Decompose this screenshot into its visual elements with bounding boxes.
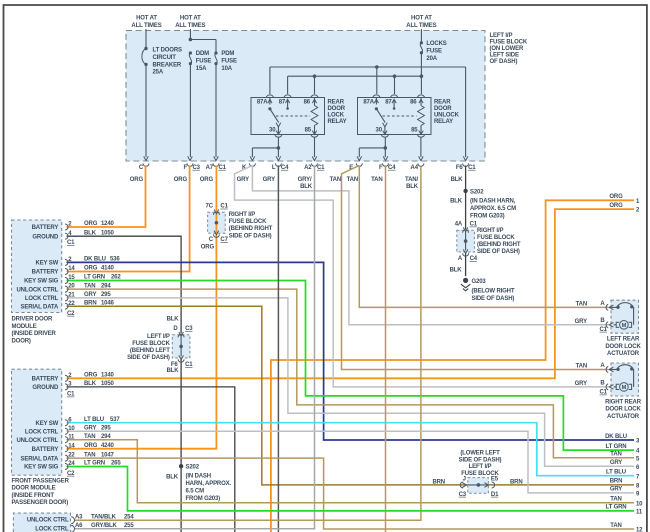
- svg-text:86: 86: [304, 99, 311, 105]
- svg-text:C4: C4: [281, 165, 289, 171]
- svg-text:87: 87: [385, 99, 392, 105]
- svg-text:BLK: BLK: [167, 316, 180, 322]
- svg-text:BRN: BRN: [510, 479, 523, 485]
- RIGHT REAR DOOR LOCK ACTUATOR (dashed box): [611, 363, 639, 396]
- svg-text:24: 24: [68, 461, 75, 467]
- svg-text:ORG: ORG: [84, 221, 98, 227]
- svg-text:BLK: BLK: [167, 368, 180, 374]
- relay switch armature: [376, 109, 385, 123]
- wire BLK 1050 passenger ground off-page: [67, 387, 235, 532]
- svg-text:21: 21: [68, 293, 75, 299]
- svg-text:C7: C7: [220, 237, 228, 243]
- junction lock 30 splice to pins K and L: [277, 146, 281, 150]
- svg-text:LOCK CTRL: LOCK CTRL: [35, 527, 69, 532]
- svg-text:ORG: ORG: [201, 244, 215, 250]
- svg-text:ORG: ORG: [609, 203, 623, 209]
- svg-text:255: 255: [124, 523, 134, 529]
- svg-text:BLK: BLK: [166, 475, 179, 481]
- svg-text:HOT AT: HOT AT: [180, 16, 201, 22]
- svg-text:1047: 1047: [101, 452, 115, 458]
- driver module pin 14 ORG 4140: [65, 269, 68, 275]
- svg-text:DK BLU: DK BLU: [605, 434, 627, 440]
- svg-text:GRY/BLK: GRY/BLK: [91, 523, 118, 529]
- svg-text:87: 87: [279, 99, 286, 105]
- svg-text:GRY: GRY: [84, 292, 96, 298]
- svg-text:HARN, APPROX.: HARN, APPROX.: [186, 481, 232, 487]
- wire LT GRN 262 driver key sw sig to terminal 4: [67, 281, 635, 451]
- svg-text:RIGHT REAR: RIGHT REAR: [605, 400, 642, 406]
- svg-text:LT DOORS: LT DOORS: [153, 48, 183, 54]
- svg-text:22: 22: [68, 301, 75, 307]
- svg-text:SIDE OF DASH): SIDE OF DASH): [229, 233, 272, 239]
- svg-text:TAN/: TAN/: [405, 177, 418, 183]
- svg-text:APPROX. 6.5 CM: APPROX. 6.5 CM: [470, 206, 516, 212]
- svg-text:LEFT I/P: LEFT I/P: [469, 464, 492, 470]
- svg-text:TAN: TAN: [610, 523, 621, 529]
- svg-text:(IN DASH HARN,: (IN DASH HARN,: [470, 199, 516, 205]
- passenger module pin 22 TAN 1047: [65, 455, 68, 461]
- wire TAN/BLK pin A4 to unlock ctrl A3: [75, 166, 421, 521]
- wire PDM fuse to pin A7/C1: [215, 64, 217, 157]
- svg-text:RIGHT I/P: RIGHT I/P: [477, 228, 503, 234]
- svg-text:M: M: [622, 385, 627, 391]
- svg-text:ALL TIMES: ALL TIMES: [175, 23, 205, 29]
- svg-text:FROM G203): FROM G203): [470, 214, 505, 220]
- svg-text:LEFT I/P: LEFT I/P: [147, 334, 170, 340]
- circuit breaker LT DOORS 25A: [144, 47, 147, 50]
- relay coil-armature dashed link: [382, 115, 416, 117]
- svg-text:DOOR MODULE: DOOR MODULE: [12, 486, 56, 492]
- wire ORG off-page to terminal 1: [271, 200, 634, 532]
- wire GRY 295 passenger lock ctrl to terminal 9: [67, 431, 635, 493]
- LEFT REAR DOOR LOCK ACTUATOR (dashed box): [611, 300, 639, 333]
- svg-text:BRN: BRN: [84, 300, 97, 306]
- svg-text:GRY: GRY: [237, 177, 249, 183]
- svg-text:ORG: ORG: [200, 177, 214, 183]
- driver module pin 2 DK BLU 536: [65, 259, 68, 265]
- svg-text:7C: 7C: [206, 204, 214, 210]
- svg-text:C4: C4: [388, 165, 396, 171]
- svg-text:10A: 10A: [221, 66, 232, 72]
- svg-text:C1: C1: [67, 392, 75, 398]
- wire TAN 1047 passenger serial data to terminal 12: [67, 458, 635, 529]
- svg-text:ALL TIMES: ALL TIMES: [131, 23, 161, 29]
- svg-text:537: 537: [110, 417, 120, 423]
- svg-text:22: 22: [68, 453, 75, 459]
- svg-text:ORG: ORG: [130, 177, 144, 183]
- wire breaker output to pin C: [145, 64, 147, 157]
- svg-text:GROUND: GROUND: [32, 385, 59, 391]
- svg-text:294: 294: [101, 283, 111, 289]
- front passenger door module (dashed box): [12, 369, 62, 475]
- svg-text:LEFT I/P: LEFT I/P: [490, 33, 513, 39]
- svg-text:TAN: TAN: [330, 177, 341, 183]
- svg-text:(BEHIND LEFT: (BEHIND LEFT: [130, 348, 170, 354]
- svg-text:C3: C3: [459, 492, 467, 498]
- svg-text:4A: 4A: [455, 222, 463, 228]
- svg-text:25A: 25A: [153, 70, 164, 76]
- svg-text:A4: A4: [411, 165, 419, 171]
- svg-text:SERIAL DATA: SERIAL DATA: [21, 456, 60, 462]
- connector pin F/C4: [383, 156, 388, 160]
- svg-text:GRY/: GRY/: [298, 177, 312, 183]
- svg-text:F6: F6: [171, 362, 179, 368]
- wire lock relay 85 to pin A2: [314, 137, 316, 157]
- actuator motor: [620, 321, 629, 330]
- svg-text:11: 11: [636, 510, 643, 516]
- svg-text:(BEHIND RIGHT: (BEHIND RIGHT: [477, 242, 521, 248]
- svg-text:(INSIDE DRIVER: (INSIDE DRIVER: [12, 331, 57, 337]
- actuator motor: [620, 383, 629, 392]
- wire GRY pin L off-page (dark): [277, 166, 279, 532]
- wire ORG PDM fuse down to C7 connector and passenger battery ORG 4240: [215, 166, 217, 212]
- svg-text:DOOR: DOOR: [434, 106, 452, 112]
- svg-text:536: 536: [110, 257, 120, 263]
- wire TAN pin E straight to left rear actuator A: [359, 166, 608, 308]
- svg-text:FROM G203): FROM G203): [186, 496, 221, 502]
- svg-text:GRY: GRY: [610, 460, 622, 466]
- svg-text:FRONT PASSENGER: FRONT PASSENGER: [12, 479, 70, 485]
- wire TAN pin E diagonal to right rear actuator A: [342, 166, 609, 370]
- svg-text:295: 295: [101, 426, 111, 432]
- fuse PDM 10A: [214, 51, 217, 54]
- svg-text:MODULE: MODULE: [12, 324, 37, 330]
- svg-text:85: 85: [305, 128, 312, 134]
- svg-text:A7: A7: [206, 165, 214, 171]
- svg-text:L: L: [272, 165, 276, 171]
- wire BLK 4A connector to ground G203: [465, 253, 467, 276]
- wire rail2 relay coils and 87 contacts: [288, 75, 422, 77]
- svg-text:OF DASH): OF DASH): [490, 59, 518, 65]
- relay box LOCK REAR: [251, 98, 325, 135]
- svg-text:TAN: TAN: [610, 497, 621, 503]
- svg-text:SERIAL DATA: SERIAL DATA: [21, 304, 60, 310]
- svg-text:UNLOCK CTRL: UNLOCK CTRL: [27, 518, 69, 524]
- junction rail2 at 86 lock relay: [313, 74, 317, 78]
- svg-text:C3: C3: [193, 165, 201, 171]
- svg-text:C1: C1: [220, 204, 228, 210]
- svg-text:TAN: TAN: [371, 177, 382, 183]
- svg-text:F: F: [183, 165, 187, 171]
- svg-text:M: M: [622, 323, 627, 329]
- ground G203: [463, 278, 468, 283]
- svg-text:KEY SW SIG: KEY SW SIG: [24, 465, 59, 471]
- svg-text:REAR: REAR: [328, 100, 345, 106]
- wire GRY/BLK pin A2 to lock ctrl A6: [75, 166, 315, 529]
- svg-text:BLK: BLK: [450, 198, 463, 204]
- svg-text:ORG: ORG: [609, 194, 623, 200]
- svg-text:SIDE OF DASH): SIDE OF DASH): [477, 249, 520, 255]
- svg-text:PDM: PDM: [221, 51, 234, 57]
- connector pin A4: [419, 156, 424, 160]
- passenger module pin 6 LT BLU 537: [65, 420, 68, 426]
- svg-text:ORG: ORG: [84, 266, 98, 272]
- svg-text:TAN: TAN: [576, 364, 587, 370]
- svg-text:HOT AT: HOT AT: [411, 16, 432, 22]
- wire TAN 294 passenger unlock ctrl to terminal 10: [67, 440, 635, 503]
- splice S202 (left): [179, 464, 183, 468]
- svg-text:(BELOW RIGHT: (BELOW RIGHT: [472, 288, 515, 294]
- wire LT BLU 537 passenger key sw to terminal 7: [67, 423, 635, 476]
- svg-text:ALL TIMES: ALL TIMES: [406, 23, 436, 29]
- junction rail1 at unlock 87A: [375, 65, 379, 69]
- svg-text:295: 295: [101, 292, 111, 298]
- svg-text:F: F: [379, 165, 383, 171]
- svg-text:FUSE BLOCK: FUSE BLOCK: [477, 235, 515, 241]
- svg-text:GRY: GRY: [575, 319, 587, 325]
- svg-text:RELAY: RELAY: [328, 119, 347, 125]
- rear door module (dashed box, cut off): [13, 513, 70, 532]
- svg-text:GRY: GRY: [610, 487, 622, 493]
- svg-text:GRY: GRY: [84, 426, 96, 432]
- svg-text:G203: G203: [472, 279, 487, 285]
- svg-text:FUSE BLOCK: FUSE BLOCK: [461, 471, 499, 477]
- svg-text:87A: 87A: [363, 99, 374, 105]
- rear module pin A3 TAN/BLK 254: [71, 517, 74, 524]
- svg-text:FUSE BLOCK: FUSE BLOCK: [490, 39, 528, 45]
- svg-text:DOOR: DOOR: [328, 106, 346, 112]
- svg-text:1050: 1050: [101, 381, 115, 387]
- svg-text:ACTUATOR: ACTUATOR: [607, 351, 640, 357]
- svg-text:1050: 1050: [101, 230, 115, 236]
- passenger module pin 14 ORG 4240: [65, 446, 68, 452]
- svg-text:TAN: TAN: [84, 283, 95, 289]
- wire DDM fuse to pin F/C3: [189, 64, 191, 157]
- svg-text:DRIVER DOOR: DRIVER DOOR: [12, 317, 54, 323]
- svg-text:10: 10: [636, 501, 643, 507]
- wire GRY pin K straight to left rear actuator B: [252, 166, 608, 325]
- svg-text:BLK: BLK: [450, 267, 463, 273]
- svg-text:D1: D1: [491, 492, 499, 498]
- wire feed stub to circuit breaker: [145, 29, 147, 49]
- svg-text:15A: 15A: [196, 66, 207, 72]
- wire TAN pin F/C4 off-page: [385, 166, 387, 532]
- svg-text:(ON LOWER: (ON LOWER: [490, 46, 524, 52]
- svg-text:14: 14: [68, 266, 75, 272]
- relay coil-armature dashed link: [276, 115, 310, 117]
- fuse LOCKS 20A: [420, 41, 423, 44]
- svg-text:ACTUATOR: ACTUATOR: [607, 414, 640, 420]
- svg-text:F6: F6: [456, 165, 464, 171]
- svg-text:294: 294: [101, 434, 111, 440]
- svg-text:LOCK CTRL: LOCK CTRL: [25, 430, 59, 436]
- svg-text:TAN: TAN: [576, 302, 587, 308]
- svg-text:ORG: ORG: [174, 177, 188, 183]
- svg-text:BATTERY: BATTERY: [32, 447, 59, 453]
- svg-text:(BEHIND RIGHT: (BEHIND RIGHT: [229, 226, 273, 232]
- wire BLK left I/P fuse block to S202 and off-page: [180, 359, 182, 532]
- svg-text:4240: 4240: [101, 443, 115, 449]
- svg-text:20A: 20A: [426, 56, 437, 62]
- svg-text:BREAKER: BREAKER: [153, 62, 182, 68]
- relay coil: [418, 106, 425, 126]
- svg-text:BATTERY: BATTERY: [32, 270, 59, 276]
- relay coil: [311, 106, 318, 126]
- rear module pin A6 GRY/BLK 255: [71, 525, 74, 532]
- svg-text:FUSE: FUSE: [426, 49, 442, 55]
- svg-text:ORG: ORG: [84, 443, 98, 449]
- svg-text:GRY: GRY: [575, 381, 587, 387]
- left I/P fuse block (dashed box): [126, 31, 485, 162]
- svg-text:C1: C1: [600, 390, 608, 396]
- svg-text:BATTERY: BATTERY: [32, 377, 59, 383]
- svg-text:DOOR LOCK: DOOR LOCK: [605, 344, 641, 350]
- svg-text:(INSIDE FRONT: (INSIDE FRONT: [12, 493, 55, 499]
- svg-text:LT GRN: LT GRN: [606, 505, 627, 511]
- junction DDM/PDM feed: [189, 38, 193, 42]
- svg-text:TAN/BLK: TAN/BLK: [91, 515, 117, 521]
- svg-text:KEY SW: KEY SW: [36, 421, 59, 427]
- svg-text:LOCK CTRL: LOCK CTRL: [25, 296, 59, 302]
- wire unlock relay 30 output: [384, 137, 386, 157]
- connector pin C: [144, 156, 149, 160]
- passenger module pin 2 ORG 1340: [65, 375, 68, 381]
- svg-text:86: 86: [410, 99, 417, 105]
- svg-text:S202: S202: [186, 465, 200, 471]
- wire BRN 1046 driver serial data to terminal 8 via E5 connector: [67, 306, 635, 485]
- svg-text:BLK: BLK: [451, 177, 464, 183]
- wire ORG 1340 passenger battery to terminal 2: [67, 209, 635, 378]
- svg-text:C1: C1: [67, 240, 75, 246]
- wire BLK 1050 driver ground to left I/P fuse block: [67, 236, 182, 333]
- svg-text:LT BLU: LT BLU: [606, 470, 626, 476]
- svg-text:FUSE: FUSE: [221, 59, 237, 65]
- svg-text:FUSE: FUSE: [196, 59, 212, 65]
- wire ORG 1240 breaker to driver module battery: [67, 166, 146, 228]
- wire lock relay 30 output: [277, 137, 279, 157]
- driver module pin 22 BRN 1046: [65, 303, 68, 309]
- wire LT GRN 265 passenger key sw sig to terminal 11: [67, 467, 635, 511]
- svg-text:GRY: GRY: [263, 177, 275, 183]
- svg-text:CIRCUIT: CIRCUIT: [153, 55, 177, 61]
- wire TAN 294 driver unlock ctrl to terminal 5: [67, 289, 635, 458]
- driver module pin 2 ORG 1240: [65, 224, 68, 230]
- actuator crank arc: [617, 303, 633, 308]
- svg-text:BATTERY: BATTERY: [32, 225, 59, 231]
- driver module pin 4 BLK 1050: [65, 233, 68, 239]
- svg-text:C2: C2: [67, 471, 75, 477]
- svg-text:6.5 CM: 6.5 CM: [186, 489, 205, 495]
- junction unlock 30 splice to pins E and F: [384, 146, 388, 150]
- svg-text:TAN: TAN: [84, 434, 95, 440]
- svg-text:TAN: TAN: [84, 452, 95, 458]
- svg-text:A2: A2: [304, 165, 312, 171]
- svg-text:265: 265: [111, 461, 121, 467]
- wire unlock relay 85 to pin A4: [420, 137, 422, 157]
- svg-text:BRN: BRN: [432, 479, 445, 485]
- connector pin E: [357, 156, 362, 160]
- svg-text:20: 20: [68, 284, 75, 290]
- svg-text:262: 262: [111, 275, 121, 281]
- svg-text:RELAY: RELAY: [434, 119, 453, 125]
- svg-text:TAN: TAN: [610, 452, 621, 458]
- svg-text:ORG: ORG: [84, 373, 98, 379]
- svg-text:LT BLU: LT BLU: [84, 417, 104, 423]
- svg-text:C4: C4: [470, 256, 478, 262]
- connector pin K: [250, 156, 255, 160]
- driver module pin 15 LT GRN 262: [65, 278, 68, 284]
- svg-text:UNLOCK CTRL: UNLOCK CTRL: [17, 287, 59, 293]
- wire ORG 4140 DDM fuse to driver module battery: [67, 166, 190, 272]
- svg-text:(LOWER LEFT: (LOWER LEFT: [460, 451, 500, 457]
- svg-text:LEFT SIDE: LEFT SIDE: [490, 52, 519, 58]
- svg-text:C3: C3: [185, 326, 193, 332]
- svg-text:FUSE BLOCK: FUSE BLOCK: [132, 341, 170, 347]
- svg-text:C1: C1: [470, 222, 478, 228]
- svg-text:TAN: TAN: [347, 177, 358, 183]
- svg-text:85: 85: [411, 128, 418, 134]
- svg-text:UNLOCK CTRL: UNLOCK CTRL: [17, 438, 59, 444]
- svg-text:SIDE OF DASH): SIDE OF DASH): [472, 296, 515, 302]
- svg-text:DOOR LOCK: DOOR LOCK: [605, 407, 641, 413]
- svg-text:BLK: BLK: [84, 230, 97, 236]
- connector pin F/C3: [188, 156, 193, 160]
- svg-text:C1: C1: [600, 327, 608, 333]
- svg-text:LOCKS: LOCKS: [426, 41, 446, 47]
- wire BLK pin F6 to S202 right and 4A connector: [465, 166, 467, 230]
- svg-text:4140: 4140: [101, 266, 115, 272]
- driver module pin 20 TAN 294: [65, 286, 68, 292]
- svg-text:BRN: BRN: [610, 479, 623, 485]
- svg-text:REAR: REAR: [434, 100, 451, 106]
- svg-text:LT GRN: LT GRN: [606, 444, 627, 450]
- passenger module pin 10 GRY 295: [65, 428, 68, 434]
- svg-text:UNLOCK: UNLOCK: [434, 113, 460, 119]
- svg-text:A6: A6: [75, 523, 83, 529]
- svg-text:A3: A3: [75, 515, 83, 521]
- passenger module pin 3 BLK 1050: [65, 384, 68, 390]
- svg-text:LOCK: LOCK: [328, 113, 345, 119]
- svg-text:LT GRN: LT GRN: [84, 275, 105, 281]
- svg-text:12: 12: [636, 528, 643, 532]
- svg-text:KEY SW: KEY SW: [36, 261, 59, 267]
- svg-text:1340: 1340: [101, 373, 115, 379]
- fuse DDM 15A: [189, 51, 192, 54]
- svg-text:DK BLU: DK BLU: [84, 257, 106, 263]
- wire DK BLU 536 driver key sw to terminal 3: [67, 262, 635, 440]
- wire rail1 down to pin F6/C1: [465, 67, 467, 157]
- svg-text:DDM: DDM: [196, 51, 209, 57]
- actuator crank arc: [617, 365, 633, 370]
- svg-text:FUSE BLOCK: FUSE BLOCK: [229, 219, 267, 225]
- svg-text:S202: S202: [470, 189, 484, 195]
- relay switch armature: [270, 109, 279, 123]
- svg-text:C2: C2: [67, 311, 75, 317]
- svg-text:HOT AT: HOT AT: [136, 16, 157, 22]
- svg-text:KEY SW SIG: KEY SW SIG: [24, 279, 59, 285]
- svg-text:LEFT REAR: LEFT REAR: [607, 337, 640, 343]
- svg-text:1046: 1046: [101, 300, 115, 306]
- svg-text:PASSENGER DOOR): PASSENGER DOOR): [12, 500, 69, 506]
- svg-text:15: 15: [68, 275, 75, 281]
- svg-text:BLK: BLK: [406, 184, 419, 190]
- junction rail2 at 87 unlock relay: [393, 74, 397, 78]
- svg-text:LT GRN: LT GRN: [84, 461, 105, 467]
- svg-text:BLK: BLK: [84, 381, 97, 387]
- wire GRY pin K diagonal to right rear actuator B: [235, 166, 609, 387]
- svg-text:87A: 87A: [257, 99, 268, 105]
- svg-text:SIDE OF DASH): SIDE OF DASH): [459, 457, 502, 463]
- svg-text:254: 254: [124, 515, 134, 521]
- svg-text:C1: C1: [468, 165, 476, 171]
- svg-text:14: 14: [68, 443, 75, 449]
- svg-text:RIGHT I/P: RIGHT I/P: [229, 212, 255, 218]
- svg-text:10: 10: [68, 426, 75, 432]
- driver door module (dashed box): [12, 220, 62, 313]
- svg-text:C1: C1: [317, 165, 325, 171]
- connector pin L/C4: [276, 156, 281, 160]
- svg-text:(IN DASH: (IN DASH: [186, 474, 211, 480]
